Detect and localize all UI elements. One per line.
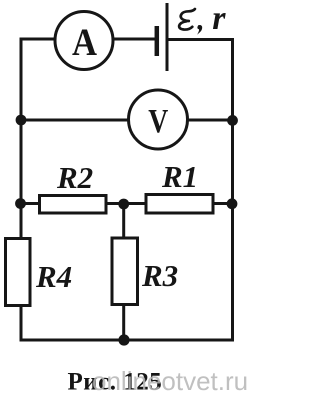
svg-text:R2: R2 bbox=[56, 160, 93, 195]
svg-text:r: r bbox=[212, 0, 226, 37]
svg-text:R1: R1 bbox=[161, 159, 198, 194]
svg-text:onlineotvet.ru: onlineotvet.ru bbox=[92, 366, 247, 396]
svg-text:V: V bbox=[148, 103, 168, 140]
svg-text:R3: R3 bbox=[141, 258, 178, 293]
svg-text:A: A bbox=[72, 21, 97, 64]
svg-text:R4: R4 bbox=[35, 259, 72, 294]
